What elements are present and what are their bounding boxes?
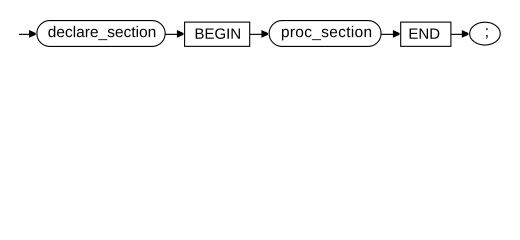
node declare_section (stadium box) xyxy=(37,21,165,47)
keyword END (rect box) xyxy=(401,22,451,46)
wire 5 xyxy=(451,33,462,35)
terminal semicolon (ellipse) xyxy=(470,22,501,45)
label declare_section xyxy=(48,26,155,40)
label proc_section xyxy=(282,26,371,40)
wire 4 xyxy=(381,33,394,35)
background xyxy=(0,0,520,58)
label ; xyxy=(486,28,488,38)
label BEGIN xyxy=(196,28,240,39)
arrowhead 1 xyxy=(29,30,36,38)
keyword BEGIN (rect box) xyxy=(185,22,250,46)
label END xyxy=(410,28,440,38)
arrowhead 4 xyxy=(393,30,400,38)
wire entry xyxy=(19,33,30,35)
wire 2 xyxy=(166,33,179,35)
arrowhead 3 xyxy=(261,30,268,38)
wire 3 xyxy=(250,33,262,35)
node proc_section (stadium box) xyxy=(269,21,381,47)
arrowhead 5 xyxy=(462,30,469,38)
arrowhead 2 xyxy=(177,30,184,38)
